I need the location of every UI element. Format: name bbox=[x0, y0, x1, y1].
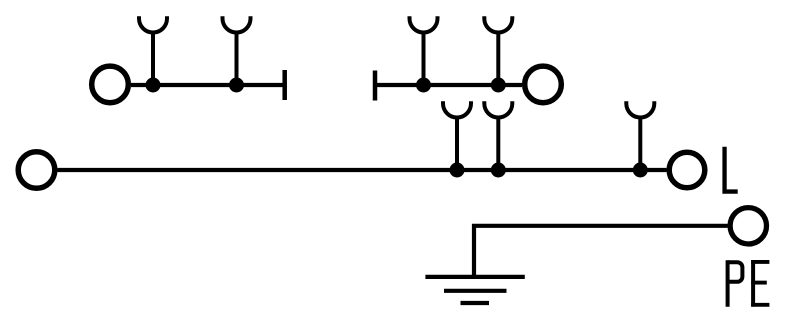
bus end bar (upper-right bus) bbox=[373, 71, 378, 101]
junction (net L, tap 3) bbox=[633, 163, 648, 178]
junction (net L, tap 1) bbox=[450, 163, 465, 178]
test socket tap (upper-right bus, tap 1) bbox=[410, 16, 438, 85]
terminal circle X5 (PE clamp) bbox=[730, 208, 766, 244]
junction (net L, tap 2) bbox=[491, 163, 506, 178]
label PE (net name) bbox=[728, 260, 770, 307]
test socket tap (net L, tap 2) bbox=[484, 101, 512, 170]
wire (upper-left bus) bbox=[131, 83, 285, 87]
test socket tap (upper-left bus, tap 2) bbox=[223, 16, 251, 85]
test socket tap (net L, tap 1) bbox=[443, 101, 471, 170]
wire (net L) bbox=[58, 168, 667, 172]
test socket tap (net L, tap 3) bbox=[626, 101, 654, 170]
wire (upper-right bus) bbox=[375, 83, 522, 87]
junction (upper-right bus, tap 1) bbox=[416, 78, 431, 93]
bus end bar (upper-left bus) bbox=[282, 70, 287, 100]
terminal circle X2 (upper-right clamp) bbox=[525, 66, 562, 103]
junction (upper-left bus, tap 2) bbox=[229, 78, 244, 93]
junction (upper-left bus, tap 1) bbox=[146, 78, 161, 93]
wire (net PE) bbox=[474, 226, 728, 277]
terminal circle X1 (upper-left clamp) bbox=[92, 66, 129, 103]
test socket tap (upper-left bus, tap 1) bbox=[139, 16, 167, 85]
terminal circle X4 (line L, right clamp) bbox=[669, 152, 705, 188]
terminal circle X3 (line L, left clamp) bbox=[18, 152, 55, 189]
label L (net name) bbox=[722, 147, 737, 194]
ground (earth symbol) bbox=[425, 277, 524, 303]
test socket tap (upper-right bus, tap 2) bbox=[484, 16, 512, 85]
junction (upper-right bus, tap 2) bbox=[491, 78, 506, 93]
